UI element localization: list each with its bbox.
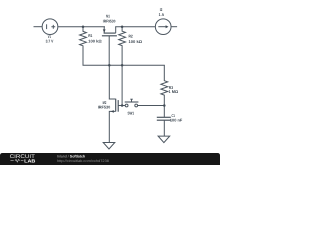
svg-text:http://circuitlab.com/cxhd7238: http://circuitlab.com/cxhd7238: [57, 159, 109, 163]
voltage source V1: [42, 19, 58, 44]
resistor R3: [161, 65, 179, 105]
svg-text:100 kΩ: 100 kΩ: [88, 38, 102, 43]
current source I2: [155, 7, 171, 35]
svg-text:3.7 V: 3.7 V: [46, 38, 54, 43]
node R2 top: [121, 25, 124, 28]
transistor M2: [98, 65, 122, 142]
node R1 top: [82, 25, 85, 28]
wire mid node R1 to R3 rail: [83, 64, 164, 66]
svg-text:Inland / Softlatch: Inland / Softlatch: [57, 155, 85, 159]
svg-text:100 kΩ: 100 kΩ: [129, 39, 143, 44]
ground (C1): [158, 136, 170, 143]
watermark bar: [0, 153, 220, 165]
resistor R1: [80, 27, 103, 66]
wire I2 right stub: [171, 26, 177, 28]
svg-text:LAB: LAB: [24, 158, 36, 163]
node M1 gate / M2 drain: [108, 64, 111, 67]
wire V1 to M1 source: [58, 26, 105, 28]
node SW1 right rail: [163, 104, 166, 107]
svg-text:100 nF: 100 nF: [170, 118, 183, 123]
svg-text:R1: R1: [88, 33, 93, 38]
node R2 bottom: [121, 64, 124, 67]
svg-text:1 A: 1 A: [159, 12, 165, 17]
ground (M2 source): [103, 143, 115, 150]
wire R2 bottom to M2 gate node: [121, 65, 123, 105]
svg-text:1 MΩ: 1 MΩ: [169, 89, 179, 94]
capacitor C1: [157, 106, 183, 137]
switch SW1: [122, 99, 164, 115]
wire V1 left stub: [34, 26, 42, 28]
svg-text:R2: R2: [129, 33, 134, 38]
svg-text:IRF9530: IRF9530: [103, 18, 116, 23]
wire M1 drain to I2: [116, 26, 156, 28]
svg-text:SW1: SW1: [128, 111, 135, 116]
transistor M1: [102, 14, 117, 66]
resistor R2: [119, 27, 143, 66]
node SW1 left: [121, 104, 124, 107]
svg-text:IRF530: IRF530: [98, 105, 111, 110]
